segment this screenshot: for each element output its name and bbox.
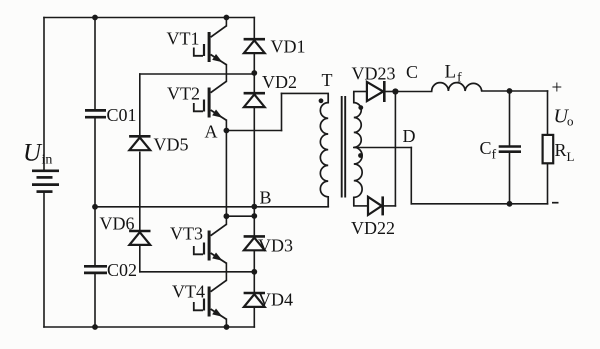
wire output bottom rail	[411, 203, 547, 205]
wire VD4 to bottom rail	[253, 307, 255, 327]
node B dot	[251, 204, 257, 210]
svg-text:R: R	[555, 140, 567, 160]
node dot VD1-VD2 junction	[251, 70, 257, 76]
capacitor Cf	[499, 147, 521, 152]
node dot link right	[251, 213, 257, 219]
polarity dot secondary lower	[358, 153, 363, 158]
svg-text:L: L	[567, 149, 575, 164]
capacitor C02	[84, 266, 107, 273]
svg-text:B: B	[260, 187, 272, 207]
wire link below B	[226, 215, 254, 217]
svg-text:VD23: VD23	[352, 63, 396, 83]
wire left column top	[43, 18, 45, 171]
diode VD1	[244, 39, 265, 53]
wire VT1 collector	[225, 18, 227, 26]
wire left column bottom	[43, 192, 45, 328]
svg-text:D: D	[403, 126, 416, 146]
polarity dot secondary upper	[358, 105, 363, 110]
transformer secondary winding upper	[354, 92, 361, 148]
transformer T primary winding	[320, 93, 328, 206]
wire VD5 to VD6	[139, 152, 141, 230]
wire C01 to B rail	[94, 118, 96, 207]
svg-text:in: in	[42, 153, 53, 168]
node dot B rail C column	[92, 204, 98, 210]
node dot link left	[224, 213, 230, 219]
wire junction to VD2	[253, 73, 255, 92]
wire node C to Lf	[395, 91, 431, 93]
diode VD22	[368, 196, 383, 215]
wire riser to primary	[281, 93, 283, 130]
svg-text:VD3: VD3	[258, 236, 293, 256]
wire top rail	[44, 17, 254, 19]
svg-text:f: f	[457, 71, 462, 86]
svg-text:U: U	[23, 140, 43, 167]
svg-text:VT2: VT2	[167, 84, 200, 104]
wire clamp column to VD5	[139, 74, 141, 135]
svg-text:C: C	[406, 62, 418, 82]
wire VD6 to VT3-VT4 midpoint	[139, 246, 141, 272]
wire VT3 emitter to midpoint	[225, 263, 227, 280]
node dot top rail C column	[92, 15, 98, 21]
transistor VT4	[194, 280, 227, 319]
svg-text:VT3: VT3	[170, 224, 203, 244]
capacitor C01	[85, 110, 106, 117]
wire node A down to VT3 collector	[225, 131, 227, 225]
diode VD4	[244, 293, 265, 307]
node dot bottom rail C column	[92, 324, 98, 330]
wire center tap to D	[354, 147, 412, 149]
wire link to VD3	[253, 216, 255, 235]
wire Cf top	[509, 91, 511, 145]
svg-text:VD4: VD4	[258, 290, 293, 310]
resistor RL	[543, 135, 554, 163]
label minus	[552, 202, 559, 204]
wire output right top	[547, 91, 549, 135]
wire secondary top lead	[354, 91, 367, 93]
node dot Cf bottom	[507, 201, 513, 207]
wire C01 column upper	[94, 18, 96, 110]
wire node C down to VD22 cathode	[394, 92, 396, 206]
wire VD23 cathode to node C	[385, 91, 395, 93]
svg-text:VT4: VT4	[172, 282, 205, 302]
transformer core	[342, 96, 346, 198]
svg-text:f: f	[492, 148, 497, 163]
wire Cf bottom	[509, 153, 511, 204]
wire B rail to C02	[94, 207, 96, 265]
node dot top rail VT1	[224, 15, 230, 21]
wire D down	[410, 148, 412, 204]
svg-text:+: +	[552, 78, 563, 99]
transistor VT2	[194, 81, 227, 120]
svg-text:A: A	[205, 121, 218, 141]
node dot VD3-VD4 junction	[251, 269, 257, 275]
wire output right bottom	[547, 163, 549, 204]
diode VD5	[129, 136, 150, 150]
svg-text:C: C	[480, 138, 492, 158]
transistor VT3	[194, 224, 227, 263]
svg-text:VT1: VT1	[167, 29, 200, 49]
wire VD1 top	[253, 18, 255, 39]
polarity dot primary	[319, 98, 324, 103]
diode VD3	[244, 236, 265, 250]
diode VD2	[244, 93, 265, 107]
wire midpoint to VD4	[253, 272, 255, 292]
wire VD2 to B rail	[253, 108, 255, 206]
wire secondary bottom lead	[354, 205, 368, 207]
wire VT1 emitter to midpoint	[225, 65, 227, 82]
wire primary top lead	[282, 92, 329, 94]
svg-text:o: o	[567, 114, 574, 129]
svg-text:C02: C02	[107, 260, 137, 280]
wire C02 to bottom rail	[94, 274, 96, 327]
node dot Cf top	[507, 88, 513, 94]
wire VT1-VT2 midpoint	[140, 73, 255, 75]
wire VT2 emitter to node A	[225, 120, 227, 130]
wire Lf to output plus corner	[482, 90, 548, 92]
svg-text:VD1: VD1	[271, 36, 306, 56]
wire VD1 to junction	[253, 54, 255, 73]
diode VD6	[129, 231, 150, 245]
transformer secondary winding lower	[354, 147, 362, 206]
node A dot	[224, 128, 230, 134]
svg-text:VD6: VD6	[100, 214, 135, 234]
node dot bottom rail VT4	[224, 324, 230, 330]
wire node A to riser	[226, 130, 281, 132]
svg-text:VD2: VD2	[262, 72, 297, 92]
wire B rail	[95, 206, 328, 208]
diode VD23	[367, 81, 384, 102]
svg-text:VD5: VD5	[154, 134, 189, 154]
svg-text:T: T	[322, 70, 333, 90]
svg-text:VD22: VD22	[351, 218, 395, 238]
wire VD22 cathode link	[384, 205, 396, 207]
svg-text:L: L	[445, 62, 457, 83]
wire VT4 emitter to bottom rail	[225, 319, 227, 327]
wire bottom rail	[44, 326, 254, 328]
node C dot	[392, 88, 398, 94]
wire B rail to link	[253, 207, 255, 216]
wire VT3-VT4 midpoint	[140, 271, 255, 273]
transistor VT1	[194, 26, 227, 65]
svg-text:C01: C01	[107, 105, 137, 125]
inductor Lf	[432, 83, 482, 91]
battery Uin	[32, 171, 59, 192]
wire VD3 to midpoint	[253, 250, 255, 271]
